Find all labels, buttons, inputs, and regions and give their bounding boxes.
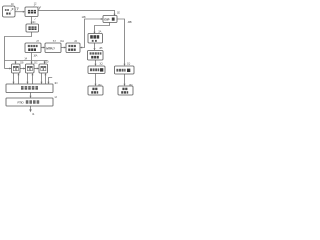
wire short feeder into W1 right — [49, 78, 53, 84]
arrowhead into C2a top — [124, 64, 126, 66]
wire bus horizontal — [5, 60, 48, 62]
C2a text — [116, 69, 125, 72]
M1 glyph smudge row — [90, 35, 99, 38]
wire S2 to S3 arrow — [34, 68, 38, 70]
svg-text:1E: 1E — [117, 11, 120, 15]
wire C1a to C1b — [95, 74, 97, 86]
svg-text:12D: 12D — [45, 60, 49, 64]
C1a text — [90, 68, 99, 71]
arrowheads stubs into W1 — [13, 82, 15, 84]
arrowheads up into S bottoms — [18, 73, 20, 75]
wire box4 drop through bus into S2 — [31, 53, 33, 64]
wide box W1 — [6, 84, 53, 93]
box1 text — [5, 9, 9, 11]
arrowhead W2 output — [29, 109, 32, 112]
wire S1 to S2 arrow — [20, 68, 25, 70]
box C1b — [88, 86, 103, 95]
wide box W2 — [6, 98, 53, 106]
box C2b — [118, 86, 133, 95]
arrowhead into box2 — [23, 11, 25, 13]
arrowhead into S2 left — [23, 68, 25, 70]
wire box1 to box2 — [15, 11, 24, 13]
box4 — [25, 43, 41, 53]
boxT EXP — [103, 16, 117, 23]
wire boxT right to C2a — [117, 19, 125, 65]
boxL text — [68, 45, 76, 47]
svg-text:14B: 14B — [82, 15, 86, 19]
arrowhead into box3 top — [31, 22, 33, 24]
leader 10 — [11, 6, 12, 8]
svg-text:2A: 2A — [98, 30, 101, 34]
arrowhead into boxL left — [64, 47, 66, 49]
box1 input unit — [3, 6, 16, 17]
arrowhead into C1b top — [95, 84, 97, 86]
box C1a — [88, 66, 105, 74]
box3 — [26, 24, 39, 32]
svg-text:16A: 16A — [33, 53, 37, 57]
wire M1 to M2 — [94, 43, 96, 50]
box S1 — [12, 64, 21, 73]
C1b text — [92, 88, 97, 90]
M2 text — [90, 52, 102, 54]
box4 text — [28, 45, 38, 47]
box S2 — [26, 64, 35, 73]
wire box3 down-left rail to bus — [5, 32, 32, 69]
S box cell top marks — [14, 67, 46, 68]
wire long line box2 to top box — [38, 10, 115, 15]
svg-text:2B: 2B — [99, 46, 102, 50]
arrowhead into C2b top — [124, 84, 126, 86]
arrowhead W1 to W2 — [30, 96, 32, 98]
arrowhead into M1 top — [94, 32, 96, 34]
S box inner cells — [13, 66, 46, 70]
wire box4 to box5 arrow — [41, 47, 44, 49]
wire box2 down to box3 — [31, 17, 33, 24]
wire W1 to W2 — [30, 93, 32, 98]
wire W2 output arrow — [30, 106, 32, 111]
wire S3 stubs to W1 — [41, 73, 43, 84]
wire box5 to boxL arrow — [61, 47, 65, 49]
arrowhead into boxL right (14B return) — [80, 47, 82, 49]
svg-text:12B: 12B — [20, 60, 24, 64]
label 11 tick — [16, 8, 18, 10]
box M1 — [88, 34, 103, 44]
box C2a — [115, 66, 135, 74]
box2 glyph smudge — [28, 10, 36, 14]
wire rail to S1 arrow — [5, 68, 11, 70]
arrowhead into S3 top — [44, 62, 46, 64]
box5 MTPL — [45, 43, 61, 53]
boxL — [66, 43, 80, 53]
arrowhead into S3 left — [37, 68, 39, 70]
arrowhead into S1 left — [9, 68, 11, 70]
box1 diag mark — [10, 9, 13, 12]
arrowhead into S1 top — [15, 62, 17, 64]
box2 — [25, 7, 38, 17]
box M2 — [88, 51, 104, 61]
wire S1 stubs to W1 — [13, 73, 15, 84]
leader 1C — [34, 18, 36, 19]
arrowhead into M2 top — [94, 48, 96, 50]
arrowhead long line into boxT top — [114, 14, 116, 16]
arrowhead into C1a top — [95, 64, 97, 66]
box3 glyph smudge — [28, 26, 36, 30]
wire boxT down to M1 — [95, 23, 110, 34]
arrowhead into box5 left — [43, 47, 45, 49]
arrowhead into S2 top — [31, 62, 33, 64]
arrowhead into boxT left (14B) — [101, 18, 103, 20]
svg-text:-MB: -MB — [127, 20, 131, 24]
wire bus drop into S1 — [15, 61, 17, 64]
box S3 — [39, 64, 48, 73]
svg-text:1D: 1D — [54, 81, 57, 85]
wire bus drop into S3 — [44, 61, 46, 64]
W1 text smudge — [21, 86, 38, 89]
wire S2 stubs to W1 — [27, 73, 29, 84]
svg-text:EXP: EXP — [104, 18, 109, 22]
wire boxL up to boxT (14B) — [81, 19, 103, 48]
label Y — [39, 6, 41, 9]
svg-text:MTPL?: MTPL? — [46, 46, 55, 50]
svg-text:RTIO: RTIO — [18, 100, 25, 104]
wire M2 to C1a — [95, 60, 97, 65]
leader 12 — [34, 5, 35, 7]
wire C2a to C2b — [124, 74, 126, 85]
svg-text:12C: 12C — [34, 60, 38, 64]
C2b text — [122, 88, 127, 90]
M1 sub text — [92, 40, 97, 42]
svg-text:1C: 1C — [32, 20, 35, 24]
